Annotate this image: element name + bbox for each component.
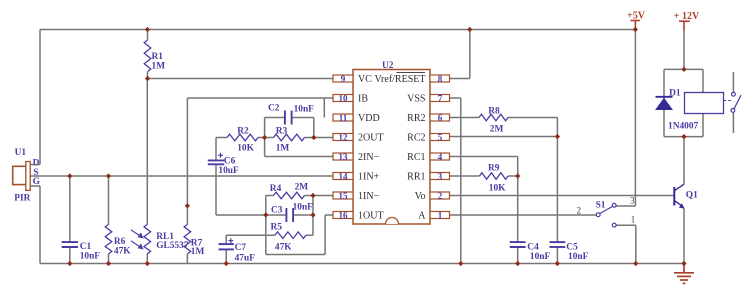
node S row/C1 [67, 173, 72, 178]
svg-text:VSS: VSS [407, 94, 425, 105]
wire junction to pin 12 [314, 137, 333, 139]
U2 pin 13 (2IN−) [333, 152, 380, 163]
U2 pin 10 (IB) [333, 93, 368, 104]
capacitor C3 10nF [266, 203, 313, 223]
capacitor C6 10uF polarized [208, 153, 239, 176]
node rail/R1 [145, 27, 150, 32]
node bus/C1 [67, 261, 72, 266]
svg-text:1: 1 [438, 210, 443, 220]
node C3 right [310, 212, 315, 217]
wire R4/C3 left vertical [265, 196, 267, 255]
wire C5 bottom stem [556, 247, 558, 263]
svg-text:C1: C1 [80, 242, 92, 252]
wire Q1 emitter to bus [683, 209, 685, 264]
svg-text:1M: 1M [152, 62, 166, 72]
svg-text:C5: C5 [566, 242, 578, 252]
svg-text:1: 1 [631, 214, 636, 224]
wire S1 contact 1 stub [616, 224, 636, 226]
wire pin 16 stub [325, 214, 333, 216]
svg-text:47uF: 47uF [235, 254, 256, 264]
node bus/C7 [224, 261, 229, 266]
wire top +5V rail [40, 29, 635, 31]
wire C3 row left segment [216, 214, 266, 216]
svg-text:7: 7 [438, 93, 443, 103]
wire relay right top [702, 69, 704, 92]
svg-text:15: 15 [339, 191, 349, 201]
resistor R4 2M [266, 183, 313, 199]
U2 pin 7 (VSS) [407, 93, 449, 104]
wire C6 bottom down to C3 row [215, 164, 217, 215]
wire pin 5 row [450, 136, 558, 138]
resistor R7 1M [184, 224, 204, 263]
capacitor C2 10nF [265, 104, 315, 125]
U2 pin 1 (A) [418, 210, 449, 221]
resistor R1 1M [144, 30, 165, 79]
wire R7 top vertical [186, 98, 188, 224]
node S row/R6 [106, 173, 111, 178]
wire relay loop top [664, 68, 703, 70]
wire IB row to pin 10 [187, 97, 333, 99]
svg-text:RR2: RR2 [407, 113, 425, 124]
wire PIR S row to pin 14 (1IN+) [30, 175, 333, 177]
svg-text:11: 11 [339, 113, 348, 123]
node rail/+5V [633, 27, 638, 32]
wire R5 left lead row [226, 234, 275, 236]
wire +12V down to relay [683, 30, 685, 69]
resistor R9 10K [450, 164, 518, 194]
diode D1 1N4007 [655, 89, 699, 132]
svg-text:10nF: 10nF [568, 252, 589, 262]
ground symbol [674, 264, 694, 284]
svg-text:1IN−: 1IN− [358, 191, 380, 202]
svg-text:1OUT: 1OUT [358, 211, 384, 222]
wire pin A row to S1 [450, 214, 597, 216]
svg-text:10K: 10K [237, 143, 254, 153]
svg-text:D1: D1 [669, 89, 681, 99]
svg-text:C3: C3 [271, 206, 283, 216]
svg-text:Q1: Q1 [686, 191, 698, 201]
U2 pin 9 (VC) [333, 74, 372, 85]
svg-text:U1: U1 [15, 148, 27, 158]
resistor R5 47K [271, 222, 314, 252]
U2 pin 8 (Vref/RESET) [374, 73, 449, 86]
svg-text:3: 3 [438, 171, 443, 181]
wire +5V drop to S1 contact 3 [634, 30, 636, 207]
wire 1OUT return bottom [266, 254, 325, 256]
+5V power symbol [631, 21, 640, 30]
svg-text:1M: 1M [191, 247, 205, 257]
resistor RL1 GL5537 [144, 224, 151, 263]
svg-text:4: 4 [438, 152, 443, 162]
wire pin 11 up to IB row [323, 98, 325, 118]
svg-text:Vo: Vo [415, 191, 426, 202]
switch S1 [596, 203, 616, 227]
U2 pin 5 (RC2) [407, 132, 449, 143]
svg-text:2OUT: 2OUT [358, 133, 384, 144]
relay coil K1 [685, 93, 732, 114]
svg-text:16: 16 [339, 210, 349, 220]
svg-text:A: A [418, 211, 426, 222]
wire C4 bottom stem [517, 247, 519, 263]
wire R8 down to RC2 row [556, 118, 558, 137]
node bus/VSS [458, 261, 463, 266]
wire C5 top stem [556, 137, 558, 243]
svg-text:PIR: PIR [14, 194, 30, 204]
U2 pin 12 (2OUT) [333, 132, 384, 143]
svg-text:R1: R1 [152, 52, 164, 62]
svg-text:R6: R6 [114, 237, 126, 247]
node C3 left [263, 212, 268, 217]
node R1/RL1/pin9 [145, 76, 150, 81]
svg-text:S1: S1 [596, 200, 606, 210]
svg-text:R9: R9 [488, 164, 500, 174]
node bus/C5 [555, 261, 560, 266]
U2 pin 6 (RR2) [407, 113, 449, 124]
svg-text:C2: C2 [268, 104, 280, 114]
U2 pin 15 (1IN−) [333, 191, 380, 202]
svg-text:C6: C6 [224, 156, 236, 166]
capacitor C1 10nF [62, 242, 101, 262]
wire VSS down to bus [460, 98, 462, 264]
svg-text:RC2: RC2 [407, 133, 425, 144]
svg-text:47K: 47K [114, 247, 131, 257]
svg-text:2: 2 [438, 191, 443, 201]
svg-text:10: 10 [339, 93, 349, 103]
wire pin 8 up to rail [469, 30, 471, 79]
wire R1 junction to pin 9 [148, 78, 334, 80]
node bus/RL1 [145, 261, 150, 266]
resistor R2 10K [216, 127, 265, 154]
wire C2-right vertical [313, 118, 315, 138]
svg-text:2: 2 [577, 206, 582, 216]
svg-text:2M: 2M [295, 183, 309, 193]
svg-text:IB: IB [358, 94, 368, 105]
node R2/R3/C2/pin13 [262, 135, 267, 140]
node bus/S1 [633, 261, 638, 266]
svg-text:VDD: VDD [358, 113, 380, 124]
capacitor C7 47uF polarized [219, 238, 256, 264]
wire pin 4 row [450, 156, 518, 158]
svg-text:10nF: 10nF [294, 105, 315, 115]
svg-text:U2: U2 [382, 61, 394, 71]
svg-text:RR1: RR1 [407, 172, 425, 183]
wire pin 8 stub [450, 78, 470, 80]
wire relay contact bottom lead [732, 113, 734, 134]
wire relay contact top lead [732, 72, 734, 92]
resistor R3 1M [265, 127, 314, 154]
svg-text:R2: R2 [237, 127, 249, 137]
U2 pin 16 (1OUT) [333, 210, 384, 221]
node bus/R6 [106, 261, 111, 266]
node rail/pin8 [467, 27, 472, 32]
wire bottom ground bus [40, 263, 684, 265]
svg-text:RC1: RC1 [407, 152, 425, 163]
op-amp IC U2 BISS0001 body [353, 61, 430, 224]
wire relay right bottom [702, 114, 704, 137]
node R9/C4/RC1 [515, 173, 520, 178]
relay contact [731, 92, 741, 112]
wire PIR G down to bus [39, 186, 41, 264]
node relay bottom/Q1 [681, 134, 686, 139]
svg-text:10nF: 10nF [530, 252, 551, 262]
node R8/C5/RC2 [555, 134, 560, 139]
svg-text:14: 14 [339, 171, 349, 181]
PIR sensor U1 [13, 148, 41, 204]
svg-text:10nF: 10nF [80, 252, 101, 262]
U2 pin 2 (Vo) [415, 191, 450, 202]
wire pin 7 stub [450, 97, 461, 99]
wire R8 right lead [508, 117, 557, 119]
node bus/Q1 emitter/ground [681, 261, 686, 266]
wire C1 bottom stem [69, 247, 71, 263]
svg-text:1N4007: 1N4007 [668, 121, 699, 131]
svg-text:R4: R4 [270, 184, 282, 194]
svg-text:VC: VC [358, 74, 372, 85]
svg-text:10K: 10K [489, 183, 506, 193]
wire C7 top stem [225, 235, 227, 244]
U2 pin 3 (RR1) [407, 171, 449, 182]
svg-text:C7: C7 [235, 243, 247, 253]
svg-text:R8: R8 [488, 106, 500, 116]
wire D1 vertical [663, 69, 665, 136]
svg-text:D: D [33, 158, 40, 168]
wire S1 contact 3 stub [616, 205, 635, 207]
svg-text:8: 8 [438, 74, 443, 84]
svg-text:3: 3 [630, 196, 635, 206]
wire S1 contact 1 down to bus [635, 225, 637, 263]
svg-text:10uF: 10uF [218, 166, 239, 176]
wire relay to Q1 collector [683, 137, 685, 185]
wire left vertical top to PIR D [39, 30, 41, 165]
wire junction to pin 15 [313, 195, 333, 197]
transistor Q1 NPN [674, 184, 684, 209]
resistor R8 2M [450, 106, 509, 134]
wire PIR D stub [30, 164, 40, 166]
wire pin16 vertical down [324, 215, 326, 255]
svg-text:13: 13 [339, 152, 349, 162]
svg-text:12: 12 [339, 132, 349, 142]
wire C2-left vertical to pin13 row [264, 118, 266, 157]
svg-text:5: 5 [438, 132, 443, 142]
wire relay loop bottom [664, 136, 703, 138]
wire pin 13 row [265, 156, 333, 158]
svg-text:+5V: +5V [627, 11, 646, 22]
svg-text:10nF: 10nF [293, 203, 314, 213]
wire Vo row to Q1 base [450, 195, 675, 197]
capacitor C4 10nF [510, 242, 551, 262]
node +12V/relay top [681, 67, 686, 72]
wire RC1 down to R9 junction [517, 157, 519, 177]
wire PIR G stub [30, 185, 40, 187]
svg-text:2IN−: 2IN− [358, 152, 380, 163]
wire R4/C3/R5 right vertical [312, 196, 314, 236]
resistor R6 47K [105, 176, 131, 264]
wire C1 top stem [69, 176, 71, 242]
svg-text:2M: 2M [490, 125, 504, 135]
node R3/C2/pin12 [311, 135, 316, 140]
svg-text:C4: C4 [527, 242, 539, 252]
RL1 light arrows [131, 230, 143, 249]
U2 pin 4 (RC1) [407, 152, 449, 163]
node on R7 branch [185, 203, 190, 208]
U2 pin 14 (1IN+) [333, 171, 380, 182]
svg-text:+ 12V: + 12V [674, 11, 700, 22]
wire RL1 top vertical [146, 79, 148, 225]
svg-text:Vref/RESET: Vref/RESET [374, 74, 425, 85]
svg-text:9: 9 [341, 74, 346, 84]
node bus/C4 [515, 261, 520, 266]
capacitor C5 10nF [550, 242, 589, 262]
svg-text:R5: R5 [271, 222, 283, 232]
wire C4 top stem [517, 176, 519, 242]
svg-text:6: 6 [438, 113, 443, 123]
wire C7 bottom stem [225, 249, 227, 263]
wire R2 left corner down to C6 [215, 138, 217, 161]
svg-text:1M: 1M [276, 143, 290, 153]
+12V power symbol [679, 21, 690, 30]
node R4/pin15 [310, 193, 315, 198]
U2 pin 11 (VDD) [333, 113, 380, 124]
svg-text:R3: R3 [276, 127, 288, 137]
svg-text:1IN+: 1IN+ [358, 172, 380, 183]
svg-text:47K: 47K [275, 242, 292, 252]
